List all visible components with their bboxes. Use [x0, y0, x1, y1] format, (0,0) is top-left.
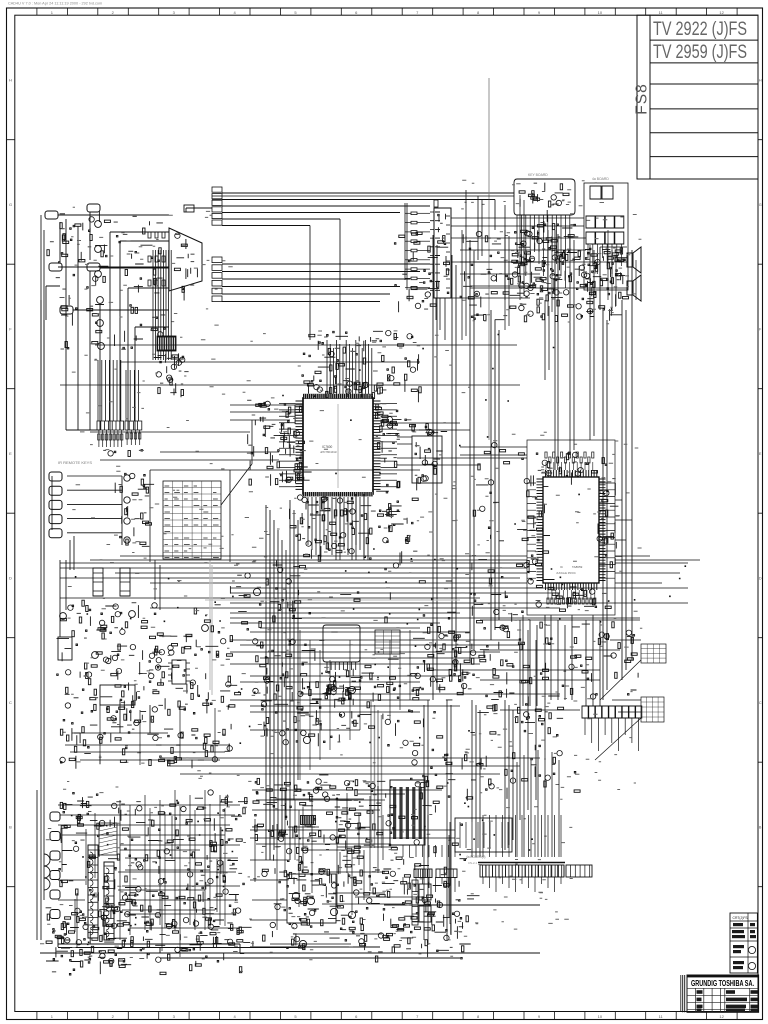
mid-left rails [60, 560, 168, 733]
hdr labels [103, 450, 144, 457]
mid-left transistors [60, 613, 67, 620]
striped resistor block [300, 815, 316, 825]
extra psu wires [58, 790, 240, 940]
connector row CN802 [478, 863, 565, 878]
svg-text:JUNGLE PROC: JUNGLE PROC [556, 571, 576, 575]
wires below IC7600 [308, 497, 368, 560]
kb labels [519, 183, 569, 222]
svg-text:E: E [759, 452, 762, 456]
CN802 riser bundle [517, 750, 559, 857]
deflection parts B [274, 862, 362, 945]
gray heavy verticals [371, 700, 382, 848]
psu labels [80, 956, 144, 974]
reset IC IC7801 vertical [434, 208, 451, 298]
title table rows [650, 15, 758, 179]
jungle fuzz bottom [536, 585, 612, 611]
AV switch input caps [148, 232, 151, 238]
connector jack AV2 [87, 204, 100, 212]
svg-text:FS8: FS8 [634, 83, 651, 114]
svg-text:E: E [9, 451, 12, 456]
svg-text:10: 10 [598, 10, 603, 15]
small IC rounded [323, 625, 360, 662]
keyboard matrix verticals [517, 215, 570, 288]
jungle IC body TA8659 [543, 477, 599, 583]
left of jungle parts [472, 442, 529, 615]
mid-left sparse [63, 701, 210, 769]
aux table 2 leader [595, 718, 641, 760]
psu bottom fill [53, 893, 252, 966]
key transistor column [124, 475, 130, 481]
mid-left box2 [100, 685, 135, 705]
wires IC to right [397, 423, 527, 465]
svg-text:TV 2959 (J)FS: TV 2959 (J)FS [653, 42, 747, 63]
psu rails [40, 938, 380, 953]
svg-text:4a BOARD: 4a BOARD [592, 177, 609, 181]
bottom-mid parts B [301, 665, 421, 746]
IC 7805 small [172, 660, 186, 684]
svg-text:B: B [9, 825, 12, 830]
AV switch trapezoid U301 [169, 228, 202, 291]
deflection transistors [292, 892, 299, 899]
AV switch pins [174, 233, 197, 301]
jungle left pin stubs [527, 483, 536, 578]
right of CN801 parts [390, 750, 472, 801]
horizontal bus center [60, 563, 688, 628]
long horizontals mid page [60, 345, 520, 460]
AV component scatter [56, 216, 166, 349]
wires from CN102 to right [222, 264, 430, 302]
ic pins below [323, 671, 363, 705]
left connector strip CN102 [212, 257, 222, 263]
connector header CN103 [97, 421, 124, 430]
svg-text:IC7600: IC7600 [322, 445, 333, 449]
relay bricks column B [120, 568, 130, 596]
4a board outline [584, 183, 628, 290]
right connector block [582, 706, 642, 718]
bottom long rails [160, 905, 540, 958]
svg-text:H: H [759, 79, 762, 83]
svg-text:D: D [9, 576, 12, 581]
vertical bus right [603, 250, 632, 700]
darken connector rows [416, 869, 432, 878]
top middle extra [460, 231, 547, 321]
IC7600 left pin stubs [279, 404, 296, 487]
4a board bottom block [455, 818, 512, 852]
connector header CN104 [125, 421, 142, 430]
transistor column T101-T106 [95, 221, 102, 228]
SAW filter F301 dark body [157, 336, 176, 351]
jungle bottom components [547, 590, 549, 600]
audio extra verticals [548, 230, 636, 316]
key switch capsules [49, 472, 62, 481]
hanging resistors below CN103 [98, 430, 100, 447]
misc horizontals [230, 447, 632, 838]
jungle fuzz [531, 452, 607, 486]
below SAW [154, 353, 189, 397]
4a board stubs [588, 244, 622, 274]
mid-left box1 [58, 637, 72, 660]
connector row CN803 [566, 865, 592, 877]
deflection extra2 [253, 781, 466, 952]
border zone ticks left and right [7, 140, 763, 887]
jungle outer boundary [527, 440, 615, 615]
mid-left lower wires [65, 705, 230, 765]
subbox parts [415, 442, 443, 490]
crosshatch extra [230, 565, 305, 630]
psu corner extra [46, 897, 130, 967]
AV section wiring [46, 212, 169, 430]
mains connector capsules [50, 812, 60, 821]
4a board connector row 3 [586, 232, 624, 244]
misc long verticals [41, 300, 545, 820]
psu far bottom sparse [52, 957, 243, 975]
svg-text:TV 2922 (J)FS: TV 2922 (J)FS [653, 19, 747, 40]
extra deflection wires [250, 790, 390, 920]
central IC fuzz bottom [298, 495, 402, 525]
IC7801 inner [436, 214, 449, 294]
svg-text:D: D [759, 577, 762, 581]
svg-text:uPD78044GF: uPD78044GF [320, 450, 337, 454]
keyboard block outline [514, 179, 575, 215]
aux table 1 leader [600, 660, 641, 700]
global tiny label scatter [40, 180, 642, 959]
hatch grid block [99, 823, 117, 855]
sub circuit box right of IC [412, 436, 442, 483]
connector row CN801b [436, 869, 457, 878]
4a bottom block bars darker [460, 822, 508, 848]
title table FS8 strip [637, 15, 650, 179]
aux table 1 [641, 644, 666, 663]
matrix table small [375, 630, 400, 654]
svg-text:G: G [9, 202, 12, 207]
vertical bus center-right [433, 235, 499, 700]
left vertical rail [37, 215, 44, 940]
IC7600 top pin comb [303, 394, 373, 398]
svg-text:CRT(J)FS: CRT(J)FS [733, 916, 749, 920]
border zone ticks bottom [37, 1012, 737, 1020]
bottom-center parts [383, 881, 480, 957]
svg-text:H: H [9, 78, 12, 83]
verticals jungle to connector row [523, 615, 600, 706]
below IC parts [290, 497, 419, 565]
jungle top pin comb [546, 470, 597, 477]
audio parts [549, 248, 629, 322]
svg-text:CN-2-1: CN-2-1 [468, 861, 477, 865]
part above IC7801 [434, 200, 438, 207]
psu mesh wires [118, 804, 240, 930]
early verticals from top [466, 190, 505, 300]
microcontroller IC7600 body [303, 398, 373, 494]
svg-text:12: 12 [719, 10, 724, 15]
drop wires into CN103 [98, 360, 139, 421]
component value table [163, 481, 221, 559]
connector row CN801a [414, 869, 432, 878]
svg-text:C: C [9, 700, 12, 705]
chopper transformer T801 [88, 845, 98, 938]
bottom band mesh A [261, 561, 467, 775]
connector jack AV5 [60, 306, 73, 314]
left connector strip CN101 top [212, 187, 222, 192]
vertical block box [287, 874, 336, 923]
deflection right fill [340, 865, 474, 962]
jungle bottom pin comb [546, 583, 597, 590]
mid-left lower fill [60, 700, 235, 768]
degauss arcs [44, 854, 50, 890]
svg-text:10: 10 [598, 1014, 603, 1019]
bottom center mesh wires [270, 560, 410, 870]
table leader line [150, 420, 420, 562]
4a board connector bricks top [590, 186, 613, 199]
bottom band mesh B [270, 782, 467, 951]
wires from CN101 to keyboard area [186, 193, 514, 226]
bottom-mid parts A [253, 639, 325, 737]
resistor ladder left of IC7801 [411, 212, 417, 215]
revision table [730, 913, 757, 973]
svg-text:IR REMOTE KEYS: IR REMOTE KEYS [58, 460, 92, 465]
transformer winding bumps [90, 852, 109, 937]
connector jack AV4 [87, 263, 100, 271]
vertical bus left-center [266, 500, 298, 860]
wire joints dots [71, 334, 686, 945]
IC7600 right pin comb [373, 401, 381, 489]
small box near CN101 [184, 205, 194, 212]
connector jack AV3 [49, 263, 62, 271]
mid-left extra2 [66, 603, 232, 766]
pin labels R [375, 404, 400, 493]
IC7600 bottom pin comb [303, 492, 373, 496]
wires into IC top [327, 340, 372, 395]
pin labels L [281, 404, 311, 484]
connector stubs [403, 815, 561, 892]
svg-text:12: 12 [719, 1014, 724, 1019]
deflection fourth pass [62, 786, 450, 957]
key parts [115, 473, 154, 546]
CRT socket boxes [419, 884, 431, 900]
4a parts [585, 248, 625, 296]
keyboard to jungle verticals [545, 235, 594, 470]
svg-text:B: B [759, 826, 762, 830]
bottom-mid transistors [303, 736, 310, 743]
svg-text:G: G [759, 203, 762, 207]
psu parts dense [60, 790, 250, 960]
central IC fuzz top [304, 376, 394, 399]
jungle left pin comb [537, 479, 544, 581]
mid-top parts [394, 232, 439, 312]
right-mid parts A [470, 609, 559, 706]
mid-left parts A [57, 600, 162, 706]
speaker SP1 [627, 247, 641, 273]
jungle top components [545, 452, 547, 458]
psu extra [59, 802, 242, 956]
left of IC [247, 400, 302, 486]
key wiring [52, 476, 122, 570]
border zone ticks top [37, 8, 737, 15]
connector jack AV1 [45, 211, 58, 219]
right-mid parts B [562, 622, 638, 699]
right mid mesh wires [480, 620, 641, 712]
mid-left parts B [155, 632, 240, 710]
kb diodes2 [515, 221, 579, 305]
extra bus lines band1 [90, 556, 700, 774]
jungle right pin stubs [599, 483, 615, 578]
svg-text:CAD4U V 7.0 : Mon Apr 24 11:11: CAD4U V 7.0 : Mon Apr 24 11:11:19 2000 -… [8, 2, 102, 6]
res row [380, 417, 447, 436]
flyback block [390, 780, 425, 845]
top-mid horizontal links [451, 218, 586, 298]
audio wires [460, 230, 627, 320]
title block [681, 975, 759, 1013]
svg-text:KEY BOARD: KEY BOARD [528, 173, 548, 177]
aux table 2 [641, 697, 664, 722]
jungle labels R [597, 479, 622, 568]
AV labels [47, 211, 139, 262]
right-mid parts C [471, 704, 581, 799]
gray routed bus [205, 560, 460, 695]
kb diodes [515, 223, 579, 301]
vertical feed lines [405, 203, 445, 340]
CRT socket strip [412, 880, 418, 925]
extra vertical drops bottom center [424, 700, 513, 945]
above IC parts [302, 330, 421, 402]
IC7600 left pin comb [296, 401, 304, 489]
bottom-mid parts C [423, 612, 471, 700]
4a board connector row 2 [586, 216, 624, 228]
svg-text:GRUNDIG TOSHIBA SA.: GRUNDIG TOSHIBA SA. [691, 979, 754, 988]
jungle right pin comb [599, 479, 606, 581]
relay bricks column A [93, 568, 103, 596]
deflection parts A [252, 778, 375, 853]
video bus below AV switch [153, 250, 171, 360]
jungle labels L [524, 478, 554, 584]
IC7600 right pin stubs [381, 404, 398, 487]
speaker SP2 [627, 275, 641, 301]
extra audio-top verticals [462, 195, 524, 340]
svg-text:TA8659: TA8659 [572, 565, 583, 569]
wire bundle top long [212, 196, 514, 340]
svg-text:C: C [759, 701, 762, 705]
